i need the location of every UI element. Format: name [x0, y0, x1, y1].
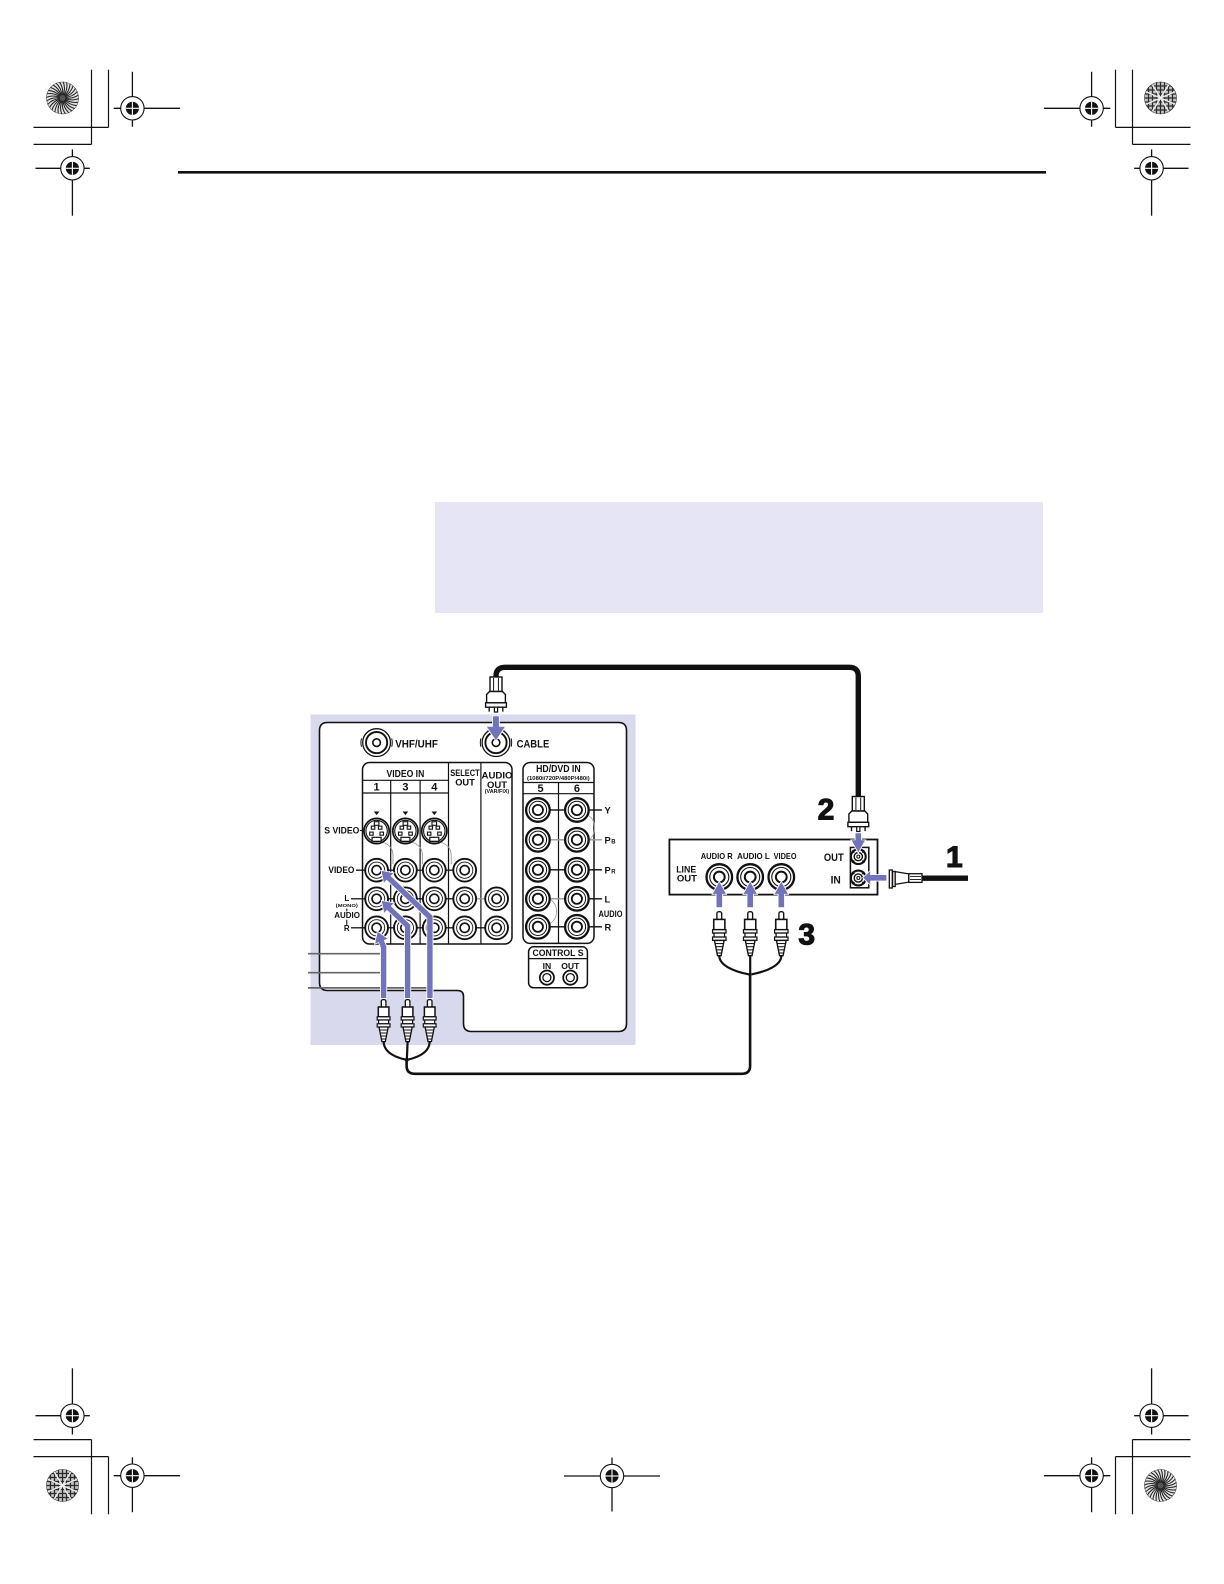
S-video jack 4: [422, 818, 447, 843]
svg-text:VIDEO: VIDEO: [328, 865, 354, 876]
HD row Pb: [550, 839, 565, 841]
VHF/UHF connector: [361, 729, 392, 757]
purple arrow into AUDIO R jack: [713, 882, 726, 907]
purple arrow into AUDIO L jack: [744, 882, 757, 907]
HD link curves: [589, 816, 595, 841]
registration target bottom-center: [564, 1458, 660, 1512]
HD row Y: [550, 809, 565, 811]
purple arrow into box OUT: [852, 833, 865, 852]
registration target left-lower: [36, 1368, 90, 1434]
svg-text:OUT: OUT: [455, 778, 475, 788]
crop marks bottom-left: [34, 1440, 109, 1515]
triangle marker 1: [374, 812, 380, 816]
A/V bundle cables box side: [719, 956, 748, 974]
svg-text:1: 1: [374, 781, 380, 793]
svg-text:VIDEO: VIDEO: [774, 852, 797, 861]
svg-text:P: P: [605, 865, 611, 875]
svg-text:HD/DVD IN: HD/DVD IN: [536, 764, 581, 775]
svg-text:1: 1: [946, 841, 963, 874]
CONTROL S OUT jack: [563, 971, 577, 985]
horizontal F plug (antenna): [889, 870, 922, 888]
cable box OUT F jack: [851, 849, 866, 864]
RCA plug box 3: [775, 912, 788, 956]
svg-text:OUT: OUT: [677, 872, 697, 883]
CONTROL S box: [529, 947, 588, 988]
RCA plug box 1: [713, 912, 726, 956]
registration target bottom-left: [114, 1457, 180, 1512]
CABLE connector: [480, 729, 511, 757]
svg-text:AUDIO L: AUDIO L: [737, 852, 770, 861]
F plug at TV CABLE: [486, 677, 507, 712]
HD/DVD IN box: [523, 763, 594, 944]
TV rear lavender panel: [311, 715, 636, 1046]
cable box IN F jack: [851, 871, 866, 886]
svg-text:3: 3: [402, 781, 408, 793]
purple arrow into box IN: [863, 871, 886, 884]
triangle marker 4: [432, 812, 438, 816]
pinwheel color mark bottom-right: [1144, 1469, 1177, 1502]
svg-text:6: 6: [574, 783, 580, 795]
jack field box: [363, 763, 513, 945]
RCA plug TV 3: [423, 1000, 436, 1042]
svg-text:B: B: [611, 839, 616, 845]
svg-text:SELECT: SELECT: [450, 768, 480, 778]
svg-text:P: P: [605, 835, 611, 845]
RCA plug box 2: [743, 912, 756, 956]
svg-text:S VIDEO: S VIDEO: [324, 825, 359, 836]
registration target right-upper: [1134, 149, 1188, 215]
A/V bundle cables TV side: [384, 1042, 406, 1060]
svg-text:OUT: OUT: [824, 852, 844, 864]
VIDEO jacks: [365, 859, 388, 882]
RCA plug TV 2: [401, 1000, 414, 1042]
cable box AUDIO L jack: [737, 864, 763, 890]
antenna cable stub: [922, 876, 968, 881]
HD row R: [550, 926, 565, 928]
leader line 2: [308, 972, 386, 974]
svg-text:(1080i/720P/480P/480i): (1080i/720P/480P/480i): [527, 776, 590, 782]
purple arrow into CABLE: [487, 716, 505, 740]
svg-text:AUDIO: AUDIO: [334, 910, 360, 920]
triangle marker 3: [403, 812, 409, 816]
S-video jack 3: [393, 818, 418, 843]
cable box F jack surround: [850, 847, 868, 887]
F plug at cable box OUT: [848, 797, 869, 832]
top rule: [178, 171, 1046, 174]
S-video jack 1: [364, 818, 389, 843]
crop marks top-left: [34, 70, 109, 145]
svg-text:VHF/UHF: VHF/UHF: [395, 739, 438, 751]
purple arrow into L 1: [382, 901, 411, 998]
crop marks bottom-right: [1116, 1440, 1191, 1515]
svg-text:R: R: [344, 924, 350, 933]
pinwheel color mark top-right: [1144, 82, 1177, 115]
svg-text:L: L: [344, 894, 349, 903]
svg-text:AUDIO: AUDIO: [599, 909, 623, 919]
coax cable TV to cable box: [496, 667, 858, 797]
svg-text:R: R: [605, 922, 612, 932]
svg-text:R: R: [611, 869, 616, 875]
CONTROL S IN jack: [540, 971, 554, 985]
L jacks: [365, 887, 388, 910]
svg-text:AUDIO R: AUDIO R: [701, 852, 733, 861]
svg-text:4: 4: [431, 781, 438, 793]
cable box body: [669, 840, 877, 895]
leader line 1: [308, 953, 386, 955]
svg-text:3: 3: [798, 919, 815, 952]
leader line 3: [308, 987, 431, 989]
svg-text:(VAR/FIX): (VAR/FIX): [485, 789, 510, 795]
purple arrow into R 1: [375, 932, 387, 998]
svg-text:2: 2: [818, 793, 835, 826]
svg-text:OUT: OUT: [561, 961, 580, 971]
svg-text:VIDEO IN: VIDEO IN: [387, 769, 425, 780]
svg-text:(MONO): (MONO): [336, 903, 358, 909]
crop marks top-right: [1116, 70, 1191, 145]
s-video link curves: [382, 842, 393, 864]
registration target bottom-right: [1044, 1457, 1110, 1512]
svg-text:CABLE: CABLE: [517, 739, 550, 751]
R jacks: [365, 916, 388, 939]
svg-text:CONTROL S: CONTROL S: [533, 948, 584, 958]
pinwheel color mark bottom-left: [46, 1469, 79, 1502]
registration target top-right: [1044, 72, 1110, 127]
cable box AUDIO R jack: [707, 864, 733, 890]
registration target left-upper: [36, 149, 90, 215]
cable box VIDEO jack: [769, 864, 795, 890]
purple arrow into VIDEO 1: [382, 871, 433, 998]
purple arrow into VIDEO jack: [775, 882, 788, 907]
RCA plug TV 1: [377, 1000, 390, 1042]
svg-text:5: 5: [537, 783, 543, 795]
A/V main cable run: [407, 975, 750, 1074]
pinwheel color mark top-left: [46, 81, 79, 114]
svg-text:IN: IN: [543, 961, 552, 971]
TV rear white panel: [320, 723, 627, 1032]
HD row Pr: [550, 869, 565, 871]
registration target top-left: [114, 72, 180, 127]
HD row L: [550, 898, 565, 900]
svg-text:L: L: [605, 894, 611, 904]
info note box: [435, 502, 1043, 613]
svg-text:Y: Y: [605, 805, 612, 815]
svg-text:IN: IN: [831, 874, 841, 886]
registration target right-lower: [1134, 1368, 1188, 1434]
